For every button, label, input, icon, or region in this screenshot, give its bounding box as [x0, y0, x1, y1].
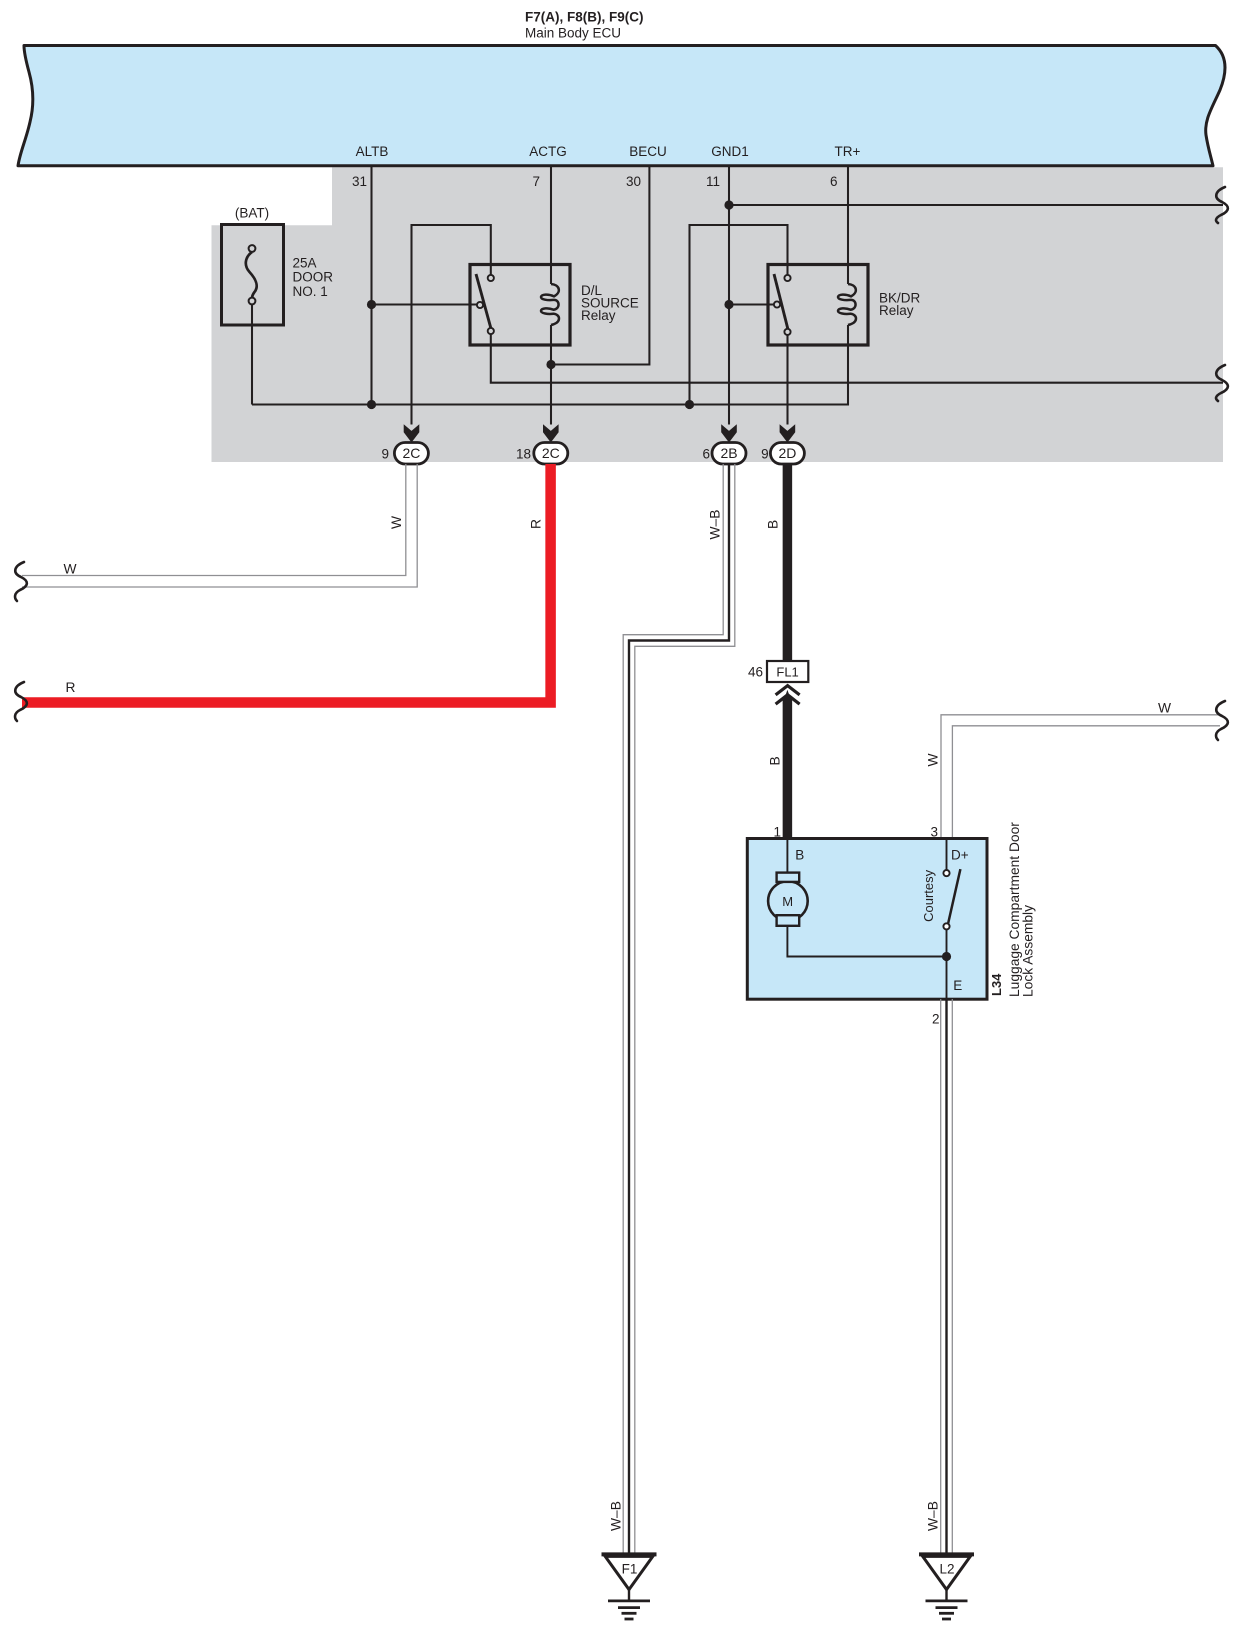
relay D/L SOURCE box — [470, 265, 570, 346]
junction ALTB / switch common — [367, 300, 376, 309]
D/L switch bottom contact — [488, 328, 494, 334]
motor M circle — [768, 881, 808, 921]
gray ECU internal background — [212, 167, 1224, 462]
svg-text:W–B: W–B — [708, 510, 723, 540]
courtesy switch bottom contact — [943, 923, 949, 929]
svg-text:D+: D+ — [951, 848, 969, 863]
svg-text:6: 6 — [702, 447, 710, 462]
wire D/L switch output to right edge — [491, 331, 1223, 383]
BK/DR relay switch blade — [774, 274, 788, 331]
svg-text:2C: 2C — [402, 445, 420, 461]
motor brush bottom — [777, 915, 800, 926]
junction courtesy/motor — [942, 952, 951, 961]
svg-text:Courtesy: Courtesy — [921, 869, 936, 922]
wire W from right edge to lock assembly pin3 — [941, 715, 1220, 838]
junction battery bus / BK/DR top contact feed — [685, 400, 694, 409]
svg-text:2C: 2C — [542, 445, 560, 461]
wire 2C pin9 feed (switch top contact to connector) — [412, 225, 491, 425]
fusible link chevron marks — [776, 686, 800, 695]
wire D/L coil bottom to 2C pin18 — [550, 325, 552, 425]
wire R from 2C pin18 (red wire, down then left to break) — [22, 464, 551, 702]
ground F1 — [602, 1554, 657, 1619]
break symbol left edge R wire — [15, 682, 27, 721]
junction GND1 / right edge branch — [724, 200, 733, 209]
wire GND1 pin11 to 2B pin6 — [728, 167, 730, 425]
BK/DR switch top contact — [784, 275, 790, 281]
wire GND1 branch to right edge — [729, 204, 1223, 206]
svg-text:Main Body ECU: Main Body ECU — [525, 26, 621, 41]
ECU header label — [525, 10, 644, 41]
svg-text:W: W — [389, 516, 404, 529]
wire pin3 to courtesy top contact — [946, 840, 948, 870]
svg-text:W–B: W–B — [609, 1501, 624, 1531]
BK/DR switch bottom contact — [784, 329, 790, 335]
svg-text:L34: L34 — [989, 973, 1004, 996]
connector arrow 2D pin9 — [780, 424, 796, 442]
svg-text:R: R — [66, 680, 76, 695]
break symbol right edge D/L output wire — [1216, 365, 1228, 401]
break symbol right edge GND1 wire — [1216, 187, 1228, 223]
svg-text:ALTB: ALTB — [356, 144, 389, 159]
svg-text:NO. 1: NO. 1 — [293, 284, 328, 299]
wire W from 2C pin9 (white wire, down then left to break) — [22, 464, 417, 587]
svg-text:46: 46 — [748, 665, 763, 680]
svg-text:Relay: Relay — [879, 303, 914, 318]
svg-text:TR+: TR+ — [835, 144, 861, 159]
wire motor to E junction — [787, 926, 946, 999]
svg-text:ACTG: ACTG — [529, 144, 567, 159]
wire ACTG pin7 to D/L coil top — [550, 167, 552, 284]
wire pin1 to motor — [786, 840, 788, 873]
wire BK/DR switch top contact feed — [690, 225, 788, 405]
wire ALTB pin31 vertical — [370, 167, 372, 405]
svg-text:B: B — [766, 520, 781, 529]
fuse element — [246, 252, 257, 298]
svg-text:11: 11 — [706, 174, 720, 189]
courtesy switch blade — [948, 869, 960, 924]
relay BK/DR box — [768, 265, 868, 346]
svg-text:R: R — [529, 519, 544, 529]
svg-text:6: 6 — [830, 174, 838, 189]
svg-text:L2: L2 — [939, 1562, 954, 1577]
connector oval 2D pin9 — [770, 443, 804, 465]
svg-text:B: B — [795, 848, 804, 863]
connector oval 2C pin18 — [534, 443, 568, 465]
courtesy switch top contact — [943, 870, 949, 876]
svg-text:FL1: FL1 — [776, 665, 798, 680]
svg-text:F7(A), F8(B), F9(C): F7(A), F8(B), F9(C) — [525, 10, 644, 25]
svg-text:(BAT): (BAT) — [235, 206, 269, 221]
svg-text:9: 9 — [381, 447, 389, 462]
wire fuse output vertical — [251, 303, 253, 405]
svg-text:GND1: GND1 — [711, 144, 749, 159]
wire B arrow tip at fusible link — [783, 690, 792, 704]
motor brush top — [777, 873, 800, 882]
svg-text:25A: 25A — [293, 256, 317, 271]
svg-text:W: W — [64, 562, 77, 577]
wire TR+ pin6 to BK/DR coil top — [847, 167, 849, 284]
wire BK/DR switch output to 2D pin9 — [786, 332, 788, 425]
Main Body ECU connector band U1 — [18, 46, 1225, 166]
fusible link FL1 box — [767, 661, 808, 682]
svg-text:Relay: Relay — [581, 308, 616, 323]
svg-text:30: 30 — [626, 174, 641, 189]
luggage compartment door lock assembly L34 box — [747, 839, 987, 1000]
svg-text:W: W — [926, 753, 941, 766]
junction D/L coil bottom / BECU — [546, 360, 555, 369]
break symbol right edge W wire — [1216, 701, 1228, 740]
wire ALTB junction to D/L switch common — [372, 303, 481, 305]
wire B from 2D pin9 to FL1 (black wire) — [783, 464, 793, 661]
svg-text:W: W — [1158, 701, 1171, 716]
svg-text:M: M — [782, 894, 793, 909]
D/L switch top contact — [488, 275, 494, 281]
label 25A DOOR NO. 1 — [293, 256, 334, 299]
BK/DR switch common contact — [774, 301, 780, 307]
label BK/DR Relay — [879, 291, 921, 319]
connector arrow 2C pin18 — [543, 424, 559, 442]
svg-text:B: B — [767, 756, 782, 765]
svg-text:DOOR: DOOR — [293, 270, 334, 285]
svg-text:BECU: BECU — [629, 144, 667, 159]
connector oval 2C pin9 — [394, 443, 428, 465]
connector arrow 2B pin6 — [721, 424, 737, 442]
D/L SOURCE relay coil — [541, 284, 559, 325]
break symbol left edge W wire — [15, 562, 27, 601]
svg-text:2B: 2B — [720, 445, 737, 461]
wire W-B from lock assembly pin2 to ground L2 — [941, 999, 953, 1553]
connector oval 2B pin6 — [712, 443, 746, 465]
svg-text:2: 2 — [932, 1012, 940, 1027]
wire courtesy bottom contact to junction — [946, 930, 948, 957]
ground L2 — [919, 1554, 974, 1619]
D/L SOURCE relay switch blade — [476, 274, 492, 331]
svg-text:E: E — [953, 978, 962, 993]
label D/L SOURCE Relay — [581, 283, 639, 323]
svg-text:2D: 2D — [778, 445, 796, 461]
connector arrow 2C pin9 — [404, 424, 420, 442]
wire GND1 branch to BK/DR switch common — [729, 303, 777, 305]
D/L switch common contact — [477, 302, 483, 308]
wire BECU pin30 to D/L coil bottom — [551, 167, 649, 365]
wire W-B from 2B pin6 to ground F1 (white-black wire) — [623, 464, 735, 1553]
BK/DR relay coil — [838, 284, 856, 325]
svg-text:18: 18 — [516, 447, 531, 462]
svg-text:9: 9 — [761, 447, 769, 462]
wire battery feed bus to BK/DR coil — [252, 325, 848, 405]
svg-text:7: 7 — [532, 174, 540, 189]
svg-text:Lock Assembly: Lock Assembly — [1021, 905, 1036, 997]
junction ALTB / battery bus — [367, 400, 376, 409]
fuse F 25A DOOR NO.1 box — [222, 225, 284, 326]
wire B from FL1 to lock assembly pin1 — [783, 698, 793, 838]
svg-text:31: 31 — [352, 174, 367, 189]
junction GND1 / BK/DR switch common — [724, 300, 733, 309]
svg-text:F1: F1 — [622, 1562, 638, 1577]
svg-text:W–B: W–B — [926, 1501, 941, 1531]
